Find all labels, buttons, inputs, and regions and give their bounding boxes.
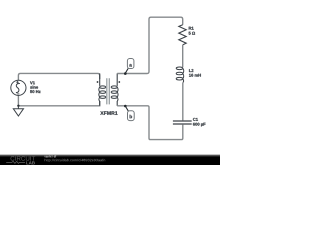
label XFMR1 bbox=[100, 111, 117, 114]
label V1 bbox=[30, 81, 35, 84]
label L2 bbox=[189, 69, 193, 72]
label 5 ohm bbox=[189, 32, 195, 35]
wire: R1 to L2 bbox=[182, 45, 184, 67]
node a flag bbox=[124, 59, 134, 75]
polarity dot primary bbox=[97, 81, 99, 83]
wire: C1 bottom to bottom run and riser to secondary bottom bbox=[117, 106, 183, 140]
wire: V1 bottom to ground junction bbox=[17, 95, 19, 106]
label 50 Hz bbox=[30, 90, 40, 93]
node b flag bbox=[124, 105, 134, 121]
transformer XFMR1 secondary winding bbox=[111, 73, 118, 105]
wire: secondary top to riser and top run to R1 bbox=[117, 17, 183, 73]
ground bbox=[13, 106, 23, 116]
wire: V1 top to transformer primary top bbox=[18, 73, 99, 80]
label C1 bbox=[193, 118, 198, 121]
label sine bbox=[30, 86, 38, 89]
transformer XFMR1 primary winding bbox=[99, 73, 106, 105]
CircuitLab logo bbox=[6, 156, 35, 164]
polarity dot secondary bbox=[118, 81, 120, 83]
core bars bbox=[107, 78, 110, 104]
junction dot at V1 bottom bbox=[17, 105, 19, 107]
capacitor C1 bbox=[173, 121, 192, 124]
inductor L2 bbox=[176, 67, 184, 83]
footer text line 1 bbox=[44, 155, 56, 157]
wire: L2 to C1 bbox=[182, 83, 184, 121]
wire: bottom-left run to transformer primary bottom bbox=[18, 101, 99, 106]
resistor R1 bbox=[179, 25, 186, 45]
voltage source V1 bbox=[11, 80, 26, 95]
footer text line 2 bbox=[45, 159, 105, 162]
label 600 uF bbox=[193, 123, 206, 127]
label R1 bbox=[189, 27, 194, 30]
label 16 mH bbox=[189, 74, 201, 77]
